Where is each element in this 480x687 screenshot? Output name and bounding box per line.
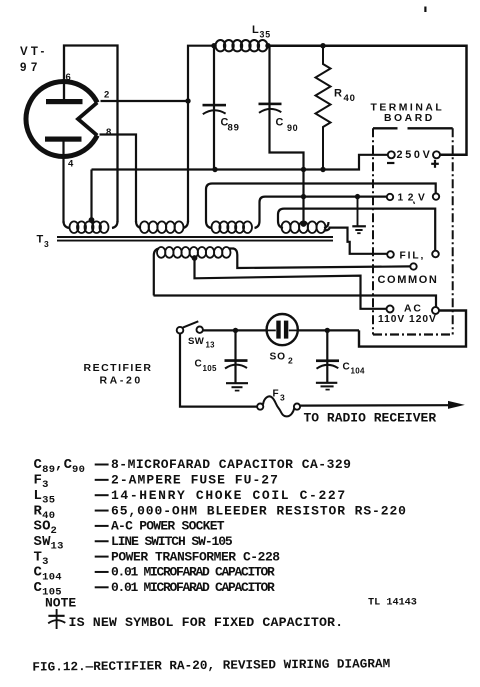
label TL 14143	[368, 598, 417, 609]
winding W3 frame	[206, 221, 260, 228]
svg-text:104: 104	[42, 571, 62, 583]
junction dot R40 bottom	[320, 167, 325, 172]
wire winding W3 left to 12V right terminal	[206, 184, 436, 222]
socket SO2 right blade	[284, 321, 288, 339]
transformer T3 core upper line	[57, 236, 333, 238]
terminal 250V minus	[388, 151, 395, 158]
svg-text:8: 8	[106, 127, 111, 138]
label L35	[252, 24, 271, 40]
junction dot R40 top	[320, 43, 325, 48]
svg-text:0.01 MICROFARAD CAPACITOR: 0.01 MICROFARAD CAPACITOR	[111, 565, 275, 580]
capacitor C104 lead	[326, 330, 328, 382]
svg-text:110V 120V: 110V 120V	[378, 314, 437, 325]
junction dot C105 top	[233, 328, 238, 333]
resistor R40	[316, 46, 331, 170]
svg-text:2: 2	[288, 356, 293, 366]
note capacitor symbol	[48, 609, 65, 629]
svg-text:NOTE: NOTE	[45, 596, 76, 611]
winding W1 frame	[64, 221, 118, 228]
label SW13	[188, 336, 215, 350]
arrowhead to radio receiver	[448, 401, 465, 409]
svg-text:8-MICROFARAD CAPACITOR CA-329: 8-MICROFARAD CAPACITOR CA-329	[111, 457, 351, 472]
label TERMINAL BOARD	[371, 103, 445, 124]
capacitor C104 top plate	[316, 359, 339, 362]
svg-text:TO RADIO RECEIVER: TO RADIO RECEIVER	[304, 411, 437, 426]
label 12V	[398, 193, 430, 204]
label FIL	[400, 250, 426, 261]
junction dot W4 tap line	[301, 194, 306, 199]
pin label 6	[66, 72, 71, 83]
svg-text:VT-: VT-	[20, 46, 48, 58]
label C105	[195, 359, 217, 374]
svg-text:35: 35	[42, 495, 55, 507]
primary winding W5 coil	[157, 247, 231, 258]
svg-text:COMMON: COMMON	[378, 274, 439, 286]
svg-text:3: 3	[42, 479, 49, 491]
svg-text:L: L	[252, 24, 259, 36]
terminal FIL left	[387, 251, 394, 258]
svg-text:RECTIFIER: RECTIFIER	[84, 362, 153, 374]
wire primary left to AC right terminal	[154, 296, 437, 307]
legend row T3	[34, 549, 281, 568]
wire pin6 to top line and down to winding W1 right	[64, 46, 118, 223]
label minus sign	[387, 162, 394, 164]
svg-text:F: F	[34, 473, 43, 489]
fuse F3 left circle	[257, 404, 263, 410]
junction dot on winding W4	[301, 221, 307, 227]
terminal 12V left	[387, 194, 393, 200]
legend row F3	[34, 473, 279, 492]
terminal 12V right	[433, 193, 439, 199]
svg-text:C: C	[195, 359, 202, 370]
svg-text:4: 4	[68, 159, 74, 170]
terminal AC left	[387, 306, 394, 313]
capacitor C89 lead	[213, 46, 215, 170]
wire B+ bus to 250V- terminal	[92, 155, 388, 170]
terminal 250V plus	[433, 151, 440, 158]
label VT-97	[20, 46, 48, 74]
capacitor C105 top plate	[225, 359, 248, 362]
svg-text:SO: SO	[34, 519, 51, 535]
svg-text:105: 105	[203, 364, 217, 373]
junction dot W1 center tap	[89, 217, 95, 223]
wire winding W4 tap riser (12V)	[302, 170, 304, 225]
wire L35 left riser (junction A vertical)	[188, 46, 212, 222]
svg-text:6: 6	[66, 72, 71, 83]
legend row C89,C90	[34, 457, 352, 476]
wire winding W1 center tap riser	[90, 170, 92, 220]
junction dot ground tap	[355, 194, 360, 199]
wire winding W3 right to 12V left terminal	[260, 197, 387, 221]
svg-text:90: 90	[287, 123, 298, 133]
label C104	[343, 362, 365, 376]
label NOTE	[45, 596, 76, 611]
svg-text:14-HENRY CHOKE COIL C-227: 14-HENRY CHOKE COIL C-227	[111, 488, 347, 503]
switch SW13 throw	[197, 327, 203, 333]
wire AC right terminal loop to SO2 line	[359, 311, 466, 347]
wire pin2 to junction A	[101, 100, 189, 102]
label AC	[404, 304, 423, 315]
label plus sign	[431, 160, 439, 168]
terminal COMMON	[410, 263, 416, 269]
pin label 8	[106, 127, 111, 138]
label C90	[276, 117, 299, 134]
socket SO2 left blade	[276, 321, 280, 339]
capacitor C90 curved plate	[259, 109, 281, 113]
svg-text:2: 2	[51, 525, 58, 537]
junction dot C89 bottom	[212, 167, 217, 172]
svg-text:RA-20: RA-20	[100, 375, 143, 387]
svg-text:C: C	[343, 362, 350, 373]
svg-text:104: 104	[351, 367, 365, 376]
svg-text:POWER TRANSFORMER C-228: POWER TRANSFORMER C-228	[111, 549, 280, 564]
label COMMON	[378, 274, 439, 286]
svg-text:IS NEW SYMBOL FOR FIXED CAPACI: IS NEW SYMBOL FOR FIXED CAPACITOR.	[69, 615, 344, 630]
choke coil L35	[216, 40, 268, 51]
junction dot C90 bottom	[301, 167, 306, 172]
capacitor C90 lead	[270, 46, 304, 170]
svg-text:13: 13	[51, 541, 64, 553]
svg-text:0.01 MICROFARAD CAPACITOR: 0.01 MICROFARAD CAPACITOR	[111, 580, 275, 595]
junction dot L35 left	[211, 43, 216, 48]
winding W4 coil	[282, 221, 326, 233]
note text	[69, 615, 344, 630]
svg-text:40: 40	[344, 93, 356, 104]
scan speck	[424, 7, 426, 13]
svg-text:C: C	[276, 117, 284, 129]
svg-text:T: T	[37, 234, 44, 246]
svg-text:F: F	[273, 389, 279, 400]
legend row SO2	[34, 519, 225, 538]
figure caption	[32, 656, 390, 674]
svg-text:2-AMPERE FUSE FU-27: 2-AMPERE FUSE FU-27	[111, 473, 279, 488]
capacitor C105 curved plate	[225, 365, 247, 369]
winding W3 coil	[212, 221, 253, 233]
junction dot L35 right	[265, 43, 270, 48]
svg-text:89: 89	[228, 123, 240, 134]
svg-text:R: R	[334, 88, 342, 100]
svg-text:SW: SW	[34, 534, 52, 550]
wire SW13 down to fuse F3	[180, 334, 257, 407]
switch SW13 lever	[183, 321, 199, 327]
svg-text:65,000-OHM BLEEDER RESISTOR RS: 65,000-OHM BLEEDER RESISTOR RS-220	[111, 503, 407, 518]
svg-text:,C: ,C	[55, 457, 73, 473]
wire pin4 down to winding W1 left	[62, 141, 64, 223]
winding W1 coil	[70, 221, 109, 233]
svg-text:LINE SWITCH SW-105: LINE SWITCH SW-105	[111, 534, 233, 549]
primary W5 left lead	[154, 249, 159, 296]
junction dot C104 top	[325, 328, 330, 333]
legend row SW13	[34, 534, 233, 553]
svg-text:SW: SW	[188, 336, 205, 347]
terminal board box bottom edge	[373, 333, 453, 335]
label 250V	[397, 149, 433, 161]
svg-text:A-C POWER SOCKET: A-C POWER SOCKET	[111, 519, 225, 534]
wire fuse to radio receiver	[300, 404, 449, 407]
capacitor C89 curved plate	[203, 110, 226, 114]
switch SW13 pole	[177, 327, 184, 334]
socket SO2 inner stubs	[267, 329, 298, 331]
junction A dot (pin2/L35/W2)	[185, 98, 190, 103]
capacitor C104 curved plate	[317, 365, 339, 369]
svg-text:SO: SO	[270, 352, 286, 363]
wire pin8 right then down to winding W2 left	[100, 135, 137, 223]
wire winding W4 left to FIL right terminal	[278, 209, 435, 251]
legend row L35	[34, 488, 347, 507]
svg-text:T: T	[34, 549, 43, 565]
svg-text:TL 14143: TL 14143	[368, 598, 417, 609]
label TO RADIO RECEIVER	[304, 411, 437, 426]
svg-text:90: 90	[72, 464, 85, 476]
label C89	[221, 117, 240, 134]
wire SW13 to SO2	[203, 329, 267, 331]
junction dot primary tap	[192, 255, 198, 261]
svg-text:97: 97	[20, 62, 42, 74]
svg-text:3: 3	[44, 239, 49, 249]
svg-text:L: L	[34, 488, 43, 504]
tube cathode wedge	[78, 103, 97, 136]
primary W5 right lead to COMMON	[229, 249, 411, 269]
ground symbol C105	[226, 383, 248, 390]
svg-text:3: 3	[280, 393, 285, 403]
tube envelope VT-97 (circle with notch)	[26, 81, 97, 156]
terminal FIL right	[432, 251, 439, 258]
svg-text:BOARD: BOARD	[384, 113, 435, 124]
label F3	[273, 389, 286, 403]
fuse F3 element	[263, 396, 294, 416]
label RECTIFIER RA-20	[84, 362, 153, 387]
legend row C104	[34, 565, 276, 584]
label SO2	[270, 352, 294, 366]
label 110V 120V	[378, 314, 437, 325]
wire winding W4 right to FIL left terminal	[324, 228, 388, 254]
capacitor C89 top plate	[203, 104, 227, 107]
wire SO2 to corner	[298, 329, 359, 331]
legend row C105	[34, 580, 276, 599]
ground symbol near T3	[352, 226, 366, 233]
wire primary tap to AC left terminal	[195, 258, 387, 309]
label R40	[334, 88, 356, 105]
svg-text:89: 89	[42, 464, 55, 476]
socket SO2 circle	[267, 314, 298, 345]
svg-text:250V: 250V	[397, 149, 433, 161]
ground symbol C104	[316, 383, 337, 390]
ground lead (12V line)	[357, 197, 359, 226]
winding W2 frame	[136, 221, 188, 228]
pin label 2	[104, 90, 109, 101]
pin label 4	[68, 159, 74, 170]
fuse F3 right circle	[294, 404, 300, 410]
svg-text:FIL,: FIL,	[400, 250, 426, 261]
label T3	[37, 234, 50, 250]
terminal board box top edge	[373, 127, 453, 129]
svg-text:2: 2	[104, 90, 109, 101]
terminal AC right	[432, 307, 439, 314]
svg-text:3: 3	[42, 556, 49, 568]
terminal board box left edge	[372, 128, 374, 334]
capacitor C105 lead	[234, 330, 236, 383]
tube top plate (pin 6 element)	[46, 99, 83, 104]
legend row R40	[34, 503, 407, 522]
tube bottom plate (pin 4 element)	[45, 137, 82, 142]
winding W2 coil	[140, 221, 184, 233]
transformer T3 core lower line	[57, 240, 333, 242]
terminal board box right edge	[452, 128, 454, 334]
svg-text:35: 35	[260, 30, 271, 40]
svg-text:13: 13	[206, 341, 216, 350]
capacitor C90 top plate	[259, 103, 282, 106]
winding W4 frame	[278, 221, 329, 228]
wire L35 right to top-right corner down to 250V+	[268, 46, 467, 155]
